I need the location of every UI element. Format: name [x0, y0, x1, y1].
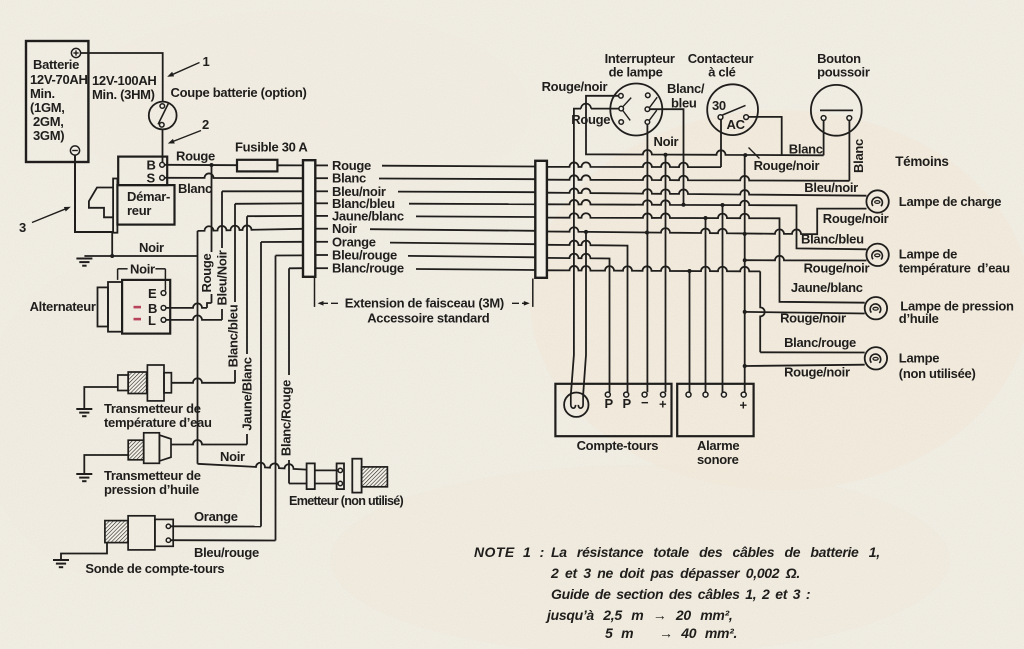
label lamp unused — [899, 351, 976, 381]
wire S1 mid rouge — [574, 104, 619, 126]
note line 1 — [474, 544, 545, 560]
terminal S starter — [147, 171, 165, 186]
tachometer terminals — [605, 392, 665, 397]
callout 3 — [19, 205, 72, 235]
starter upper box — [118, 157, 167, 186]
temp sender body — [118, 365, 172, 401]
svg-text:à clé: à clé — [708, 65, 735, 80]
svg-text:Blanc: Blanc — [851, 139, 866, 173]
key switch label — [688, 51, 754, 80]
wire Rouge row1 label segment — [315, 158, 535, 173]
wire push button right blanc — [848, 120, 850, 180]
svg-text:Noir: Noir — [220, 449, 245, 464]
note line 4 — [545, 607, 733, 623]
tacho sender label — [85, 561, 224, 576]
wire rouge row1 left — [165, 164, 304, 167]
svg-text:jusqu’à 2,5 m → 20 mm²,: jusqu’à 2,5 m → 20 mm², — [545, 607, 733, 623]
svg-text:Blanc: Blanc — [178, 181, 212, 196]
temp sender label — [104, 401, 212, 430]
ground pressure sender — [76, 474, 92, 481]
wire bleu/rouge row8 right — [547, 254, 610, 393]
battery label — [30, 57, 88, 143]
lamp charge L1 — [866, 190, 888, 212]
svg-text:AC: AC — [727, 117, 746, 132]
fuse label — [235, 140, 308, 155]
label blanc vertical S3 — [851, 139, 866, 173]
wire bleu/rouge row8 left — [276, 254, 304, 256]
wire rouge vertical to alternator B — [199, 165, 214, 308]
svg-text:2: 2 — [202, 117, 209, 132]
label blanc/bleu S1 — [667, 81, 705, 111]
alternator label — [30, 299, 96, 314]
tacho sender body — [105, 516, 173, 550]
push button bar — [820, 109, 853, 111]
tacho sender terminal 1 — [166, 524, 170, 528]
alarm box — [677, 384, 753, 436]
svg-text:pression d’huile: pression d’huile — [104, 482, 199, 497]
wire blanc/rouge row9 right — [547, 266, 760, 271]
callout 2 — [167, 117, 209, 146]
svg-text:Rouge/noir: Rouge/noir — [780, 311, 846, 326]
tacho sender ground wire — [61, 543, 107, 560]
wire rouge/noir feed horizontal — [586, 150, 824, 155]
extension left tick — [314, 278, 316, 307]
wire temp sender blanc/bleu — [171, 378, 235, 383]
svg-text:Sonde de compte-tours: Sonde de compte-tours — [85, 561, 224, 576]
alternator red dash B — [134, 306, 142, 309]
junction lineX compte minus — [645, 231, 649, 235]
svg-text:5 m → 40 mm².: 5 m → 40 mm². — [605, 625, 737, 641]
label blanc/bleu lamp — [801, 232, 864, 247]
tacho sender terminal 2 — [166, 538, 170, 542]
svg-text:Bleu/noir: Bleu/noir — [804, 180, 858, 195]
push button S3 — [811, 85, 862, 136]
wire S1 blanc/bleu — [650, 109, 684, 205]
label rouge S1 — [571, 112, 610, 127]
pressure sender label — [104, 468, 201, 497]
wire Blanc row2 label segment — [315, 171, 535, 186]
wire alarm T1 vertical — [689, 271, 691, 392]
wire Blanc/bleu row4 label segment — [315, 196, 535, 211]
wire tacho lamp feed 2 — [583, 232, 586, 394]
svg-text:Transmetteur de: Transmetteur de — [104, 401, 201, 416]
svg-text:Orange: Orange — [194, 509, 238, 524]
svg-text:Bleu/Noir: Bleu/Noir — [215, 250, 230, 305]
label blanc S wire — [178, 181, 212, 196]
lamp switch levers — [623, 97, 657, 120]
emitter label — [289, 494, 404, 508]
wire Jaune/blanc row5 label segment — [315, 208, 535, 223]
wire coupe switch to starter B — [162, 129, 164, 162]
label rouge/noir lamp2 — [804, 261, 870, 276]
alternator end cap — [98, 287, 109, 326]
alternator body — [122, 280, 170, 334]
wire tacho orange — [171, 509, 261, 527]
ground tacho sender — [53, 560, 69, 567]
tachometer lamp — [564, 393, 588, 417]
wire pressure sender jaune/blanc — [171, 440, 247, 445]
svg-text:30: 30 — [712, 98, 726, 113]
svg-text:Coupe batterie (option): Coupe batterie (option) — [171, 85, 307, 100]
wire blanc/bleu vertical to temp sender — [226, 204, 241, 383]
note line 3 — [551, 586, 810, 602]
label bleu/noir lamp — [804, 180, 858, 195]
label rouge/noir feed — [749, 148, 820, 174]
wire jaune/blanc row5 right — [547, 213, 865, 302]
key switch AC label — [727, 117, 746, 132]
note line 1b — [551, 544, 880, 560]
tachometer label — [577, 438, 659, 453]
pressure sender ground wire — [84, 455, 128, 474]
wire Bleu/rouge row8 label segment — [315, 248, 535, 263]
wire rouge/noir lamp2 — [743, 256, 867, 262]
svg-text:Lampe de charge: Lampe de charge — [899, 194, 1001, 209]
svg-text:La résistance totale des c: La résistance totale des câbles de batte… — [551, 544, 880, 560]
alternator noir bracket — [118, 262, 166, 291]
battery - terminal — [70, 146, 79, 155]
svg-text:NOTE 1 :: NOTE 1 : — [474, 544, 545, 560]
key switch S2 — [707, 84, 758, 135]
junction feeder tap — [743, 153, 747, 157]
svg-text:3GM): 3GM) — [33, 128, 64, 143]
svg-text:12V-100AH: 12V-100AH — [92, 73, 157, 88]
svg-text:Alternateur: Alternateur — [30, 299, 96, 314]
svg-text:Jaune/Blanc: Jaune/Blanc — [240, 357, 255, 430]
wire Bleu/noir row3 label segment — [315, 184, 535, 199]
svg-text:Démar-: Démar- — [127, 189, 170, 204]
svg-text:Emetteur (non utilisé): Emetteur (non utilisé) — [289, 494, 404, 508]
wire rouge row1 right — [547, 162, 721, 167]
label rouge B wire — [176, 149, 215, 164]
svg-text:12V-70AH: 12V-70AH — [30, 72, 88, 87]
wire alarm T3 vertical — [722, 205, 724, 392]
coupe batterie switch — [149, 102, 177, 130]
wire blanc row2 right — [547, 175, 850, 180]
starter lower box — [117, 185, 174, 225]
wire alternator L bleu/noir — [166, 315, 222, 320]
wire blanc row2 left — [165, 173, 304, 178]
emitter plug plate — [307, 463, 315, 489]
wire blanc/rouge vertical to emitter — [279, 268, 307, 483]
label rouge/noir lamp3 — [780, 311, 846, 326]
junction starter body to noir — [110, 233, 114, 258]
starter label — [127, 189, 170, 218]
note line 5 — [605, 625, 737, 641]
lamp unused L4 — [865, 347, 887, 369]
svg-text:reur: reur — [127, 203, 151, 218]
wire bleu/noir row3 left — [222, 190, 303, 192]
junction row9 alarm T1 — [688, 269, 692, 273]
junction lineX feeder — [743, 232, 747, 236]
push button label — [817, 51, 870, 80]
junction row4 alarm T3 — [721, 203, 725, 207]
label lamp temperature — [899, 247, 1010, 276]
label noir S1 — [654, 134, 679, 149]
wire tacho bleu/rouge — [171, 540, 276, 560]
svg-text:Alarme: Alarme — [697, 438, 739, 453]
pressure sender body — [128, 433, 171, 464]
wire S1 bottom noir — [646, 124, 648, 233]
wire bleu/noir row3 right — [547, 188, 867, 195]
svg-text:Min.: Min. — [30, 86, 55, 101]
wire jaune/blanc vertical to pressure sender — [240, 216, 255, 444]
svg-text:Transmetteur de: Transmetteur de — [104, 468, 201, 483]
wire Orange row7 label segment — [315, 234, 535, 249]
extension left arrow — [318, 301, 339, 306]
junction row4 blanc/bleu S1 — [682, 203, 686, 207]
svg-text:Blanc/Rouge: Blanc/Rouge — [279, 380, 294, 456]
wire battery- to starter — [75, 155, 113, 232]
alarm label — [697, 438, 739, 467]
svg-text:Rouge/noir: Rouge/noir — [542, 79, 608, 94]
emitter wires — [315, 470, 337, 483]
wire tap branch down — [585, 104, 587, 152]
wire noir row6 left — [198, 225, 304, 230]
svg-text:Blanc/rouge: Blanc/rouge — [332, 261, 404, 276]
key switch 30 label — [712, 98, 726, 113]
alternator flange — [108, 282, 122, 332]
wire noir bottom run to emitter — [198, 449, 307, 470]
svg-text:+: + — [740, 398, 748, 413]
svg-text:(1GM,: (1GM, — [30, 100, 65, 115]
wire blanc/bleu row4 right — [547, 200, 867, 249]
label jaune/blanc lamp — [791, 280, 863, 295]
alternator red dash L — [134, 318, 142, 321]
svg-text:(non utilisée): (non utilisée) — [899, 366, 976, 381]
wire blanc/rouge row9 left — [289, 267, 303, 269]
svg-text:+: + — [659, 397, 667, 412]
battery box — [26, 41, 88, 162]
battery alt label — [92, 73, 157, 102]
wire compte plus vertical — [665, 155, 667, 393]
wire orange row7 left — [261, 241, 303, 243]
extension label — [345, 296, 504, 326]
wire 30 riser — [720, 120, 722, 168]
wire rouge/noir lamp3 — [743, 310, 865, 314]
wire rouge/noir lamp common lineX — [547, 209, 867, 235]
junction lineX tacho lamp — [584, 230, 588, 234]
svg-text:Batterie: Batterie — [33, 57, 79, 72]
svg-text:P: P — [605, 396, 614, 411]
label temoins — [895, 154, 948, 169]
connector bar 1 — [303, 160, 315, 277]
key switch terminals — [718, 115, 748, 120]
extension right tick — [532, 279, 534, 307]
svg-text:Rouge: Rouge — [176, 149, 215, 164]
wire orange row7 right — [547, 241, 628, 393]
svg-text:Blanc/bleu: Blanc/bleu — [226, 304, 241, 367]
svg-text:3: 3 — [19, 220, 26, 235]
label rouge/noir lamp4 — [784, 365, 850, 380]
wire alarm T2 vertical — [705, 218, 707, 392]
svg-text:Rouge/noir: Rouge/noir — [784, 365, 850, 380]
starter ground wire noir — [84, 240, 197, 256]
junction row5 alarm T2 — [704, 216, 708, 220]
svg-text:d’huile: d’huile — [899, 311, 939, 326]
starter motor silhouette — [89, 188, 113, 218]
wire row9 drop to lamp4 — [760, 271, 865, 352]
wire Blanc/rouge row9 label segment — [315, 261, 535, 276]
svg-text:Min. (3HM): Min. (3HM) — [92, 87, 155, 102]
ground temp sender — [76, 409, 92, 416]
wire compte minus vertical — [646, 233, 648, 393]
lamp oil pressure L3 — [865, 297, 887, 319]
wire orange vertical to tacho sender — [260, 242, 262, 527]
alarm plus label — [740, 398, 748, 413]
svg-text:1: 1 — [203, 54, 210, 69]
note line 2 — [550, 565, 800, 581]
wire tacho lamp feed 1 — [571, 126, 574, 394]
extension right arrow — [512, 301, 530, 306]
svg-text:bleu: bleu — [671, 96, 697, 111]
terminal B starter — [147, 158, 165, 173]
lamp temperature L2 — [866, 244, 888, 266]
svg-text:2 et 3 ne doit pas dépasser 0,: 2 et 3 ne doit pas dépasser 0,002 Ω. — [550, 565, 800, 581]
svg-text:Rouge: Rouge — [571, 112, 610, 127]
ground starter — [76, 259, 92, 266]
label rouge/noir S1 — [542, 79, 608, 94]
alarm terminals — [686, 392, 746, 397]
svg-text:−: − — [641, 395, 649, 410]
svg-text:L: L — [148, 313, 156, 328]
wire jaune/blanc row5 left — [247, 215, 303, 217]
emitter socket plate — [337, 463, 344, 489]
svg-text:Rouge/noir: Rouge/noir — [804, 261, 870, 276]
coupe batterie label — [171, 85, 307, 100]
key switch lever — [723, 105, 746, 115]
junction rouge vert — [210, 163, 214, 167]
temp sender ground wire — [84, 387, 118, 409]
svg-text:Guide de section des câbles 1,: Guide de section des câbles 1, 2 et 3 : — [551, 586, 810, 602]
wire AC jog — [749, 117, 782, 155]
svg-text:P: P — [623, 396, 632, 411]
svg-text:Compte-tours: Compte-tours — [577, 438, 659, 453]
svg-text:E: E — [148, 286, 157, 301]
lamp switch terminals — [619, 93, 650, 124]
label rouge/noir lamp1 — [823, 211, 889, 226]
wire Noir row6 label segment — [315, 221, 535, 236]
fuse F1 30A — [237, 160, 277, 172]
lamp switch S1 — [610, 84, 662, 136]
terminal E alternator — [148, 286, 166, 301]
svg-text:Blanc: Blanc — [789, 142, 823, 157]
wire alternator B rouge — [166, 303, 207, 308]
battery + terminal — [71, 48, 80, 57]
wire push button left — [823, 120, 825, 155]
tachometer terminal labels — [605, 395, 668, 412]
svg-text:température d’eau: température d’eau — [104, 415, 212, 430]
wire rouge/noir feeder vertical — [744, 155, 746, 392]
svg-text:Noir: Noir — [139, 240, 164, 255]
wire S1 top to tap — [586, 96, 619, 104]
label lamp charge — [899, 194, 1001, 209]
svg-text:Témoins: Témoins — [895, 154, 948, 169]
wire rouge/noir lamp4 — [743, 364, 865, 368]
svg-text:Noir: Noir — [130, 262, 155, 277]
svg-text:Lampe de: Lampe de — [899, 247, 957, 262]
svg-text:Extension de faisceau (3M): Extension de faisceau (3M) — [345, 296, 504, 311]
svg-text:sonore: sonore — [697, 452, 739, 467]
terminal B alternator — [148, 301, 166, 316]
svg-text:Blanc/: Blanc/ — [667, 81, 705, 96]
connector bar 2 — [535, 161, 547, 278]
label lamp oil — [899, 298, 1014, 326]
junction compte+ tap — [664, 153, 668, 157]
svg-text:température d’eau: température d’eau — [899, 261, 1010, 276]
emitter terminal 2 — [338, 481, 342, 485]
emitter terminal 1 — [338, 468, 342, 472]
svg-text:Lampe: Lampe — [899, 351, 939, 366]
svg-text:Accessoire standard: Accessoire standard — [367, 311, 490, 326]
wire battery+ to coupe switch — [81, 53, 163, 102]
svg-text:Rouge: Rouge — [199, 253, 214, 292]
svg-text:Fusible 30 A: Fusible 30 A — [235, 140, 308, 155]
svg-text:de lampe: de lampe — [609, 65, 663, 80]
callout 1 — [166, 54, 209, 79]
tachometer box — [555, 384, 671, 436]
svg-text:S: S — [147, 171, 156, 186]
wire noir vertical long — [197, 231, 199, 464]
svg-text:Rouge/noir: Rouge/noir — [754, 158, 820, 173]
svg-text:Blanc/rouge: Blanc/rouge — [784, 335, 856, 350]
svg-text:Jaune/blanc: Jaune/blanc — [791, 280, 863, 295]
svg-text:2GM,: 2GM, — [33, 114, 64, 129]
push button terminals — [821, 116, 852, 121]
starter brush strip — [113, 179, 117, 233]
label blanc feed — [789, 142, 823, 157]
svg-text:poussoir: poussoir — [817, 65, 870, 80]
wire bleu/noir vertical to alternator L — [215, 191, 230, 320]
emitter body — [352, 459, 387, 493]
svg-text:Noir: Noir — [654, 134, 679, 149]
wire blanc/bleu row4 left — [235, 202, 303, 204]
svg-text:Bleu/rouge: Bleu/rouge — [194, 545, 259, 560]
terminal L alternator — [148, 313, 166, 328]
lamp switch label — [605, 51, 675, 80]
wire bleu/rouge vertical to tacho sender — [275, 256, 277, 541]
label blanc/rouge lamp — [784, 335, 856, 350]
